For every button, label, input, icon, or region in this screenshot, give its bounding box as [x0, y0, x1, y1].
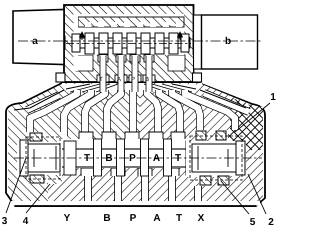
svg-text:P: P [131, 76, 135, 83]
svg-text:A: A [153, 153, 160, 164]
svg-text:2: 2 [268, 217, 274, 228]
svg-text:Y: Y [64, 213, 71, 224]
svg-text:4: 4 [23, 216, 29, 227]
svg-text:5: 5 [250, 217, 256, 228]
svg-text:T: T [84, 153, 90, 164]
svg-text:B: B [145, 76, 149, 83]
svg-text:X: X [198, 213, 205, 224]
svg-text:A: A [153, 213, 160, 224]
svg-text:1: 1 [270, 92, 276, 103]
svg-text:a: a [32, 36, 38, 47]
svg-text:B: B [105, 153, 112, 164]
svg-text:A: A [117, 76, 121, 83]
svg-text:T: T [99, 76, 103, 83]
svg-text:B: B [103, 213, 110, 224]
svg-text:T: T [175, 153, 181, 164]
svg-text:P: P [129, 153, 136, 164]
svg-text:P: P [130, 213, 137, 224]
svg-text:3: 3 [2, 216, 8, 227]
svg-text:b: b [225, 36, 231, 47]
svg-text:T: T [176, 213, 182, 224]
